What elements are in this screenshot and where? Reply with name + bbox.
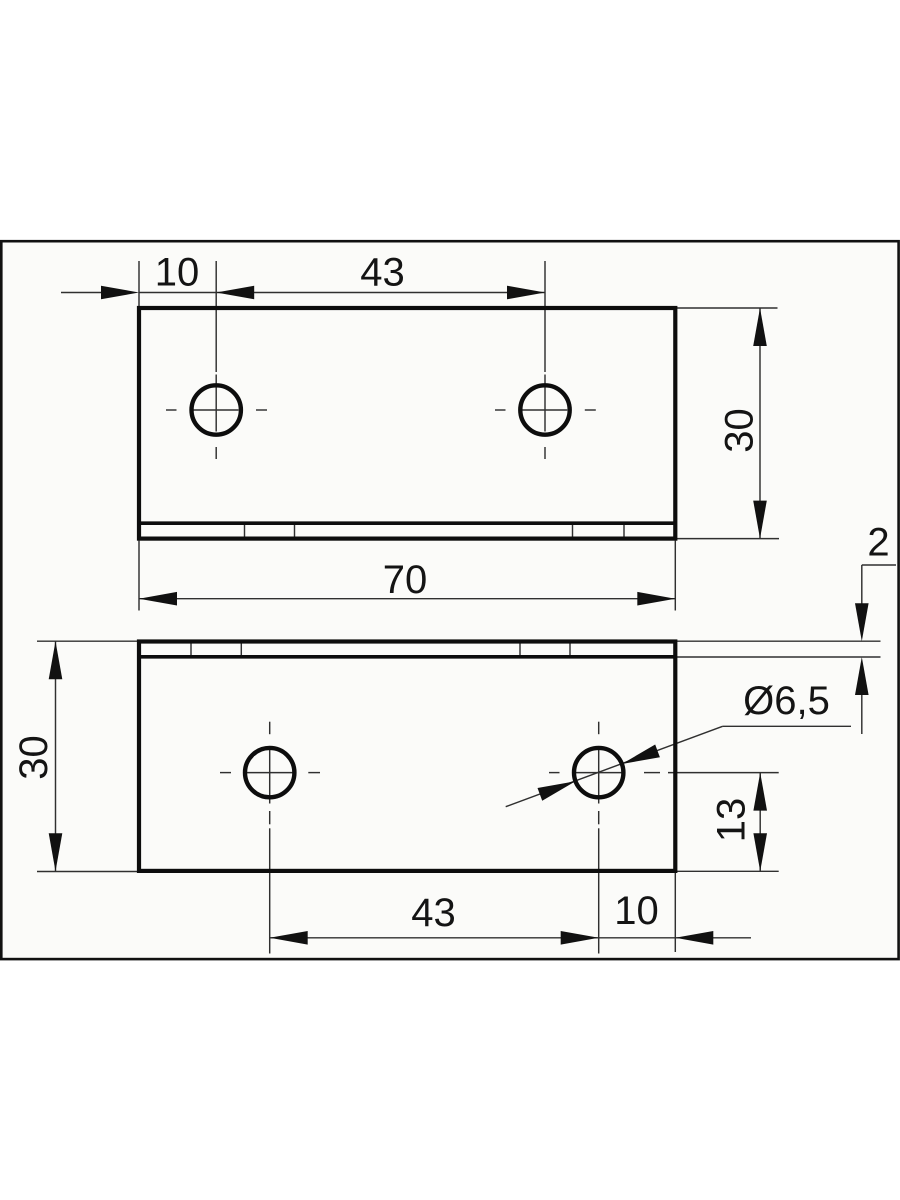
arrow dim43-bottom right [561, 931, 599, 945]
dim 13: dimension line [759, 773, 761, 872]
dim 43/10 bottom: dimension line [270, 937, 676, 939]
svg-text:70: 70 [383, 558, 428, 602]
dim 30 right: extension lines [677, 307, 778, 309]
centerline horizontal hole B1 [220, 772, 231, 774]
svg-text:2: 2 [867, 521, 889, 565]
arrow leader Ø6,5 lower [538, 775, 578, 801]
arrow dim10-bottom outside right [675, 931, 713, 945]
arrow dim30-right bottom [753, 501, 767, 539]
hole B2 [574, 748, 623, 797]
centerline horizontal hole T2 [495, 409, 506, 411]
centerline vertical hole T1 [215, 261, 217, 372]
drawing sheet frame [1, 241, 898, 959]
dim 70: dimension line [139, 598, 675, 600]
centerline horizontal hole B2 [549, 772, 560, 774]
plate outline, bottom view [139, 642, 675, 871]
hidden-line ticks in edge strip [190, 643, 192, 656]
leader line for Ø6,5 [506, 726, 723, 806]
plate outline, top view [139, 308, 675, 539]
arrow dim70 left [139, 592, 177, 606]
extension line, plate left edge (x=139) [138, 261, 140, 306]
arrow dim13 bottom [753, 833, 767, 871]
hole T1 [192, 385, 241, 434]
svg-text:30: 30 [718, 408, 762, 453]
dim 13: bottom extension line [677, 870, 779, 872]
centerline vertical hole B1 [269, 722, 271, 735]
arrow dim43 left [216, 286, 254, 300]
svg-text:43: 43 [411, 891, 456, 935]
hidden-line ticks in edge strip [244, 524, 246, 538]
svg-text:13: 13 [710, 798, 754, 843]
svg-text:43: 43 [360, 251, 405, 295]
arrow dim43 right [507, 286, 545, 300]
arrow dim43-bottom left [270, 931, 308, 945]
hole B1 [245, 748, 294, 797]
arrow dim2 upper (outside, points down) [855, 603, 869, 641]
arrow dim2 lower (outside, points up) [855, 657, 869, 695]
arrow dim30-left top [49, 641, 63, 679]
dim 30 left: extension lines [37, 640, 139, 642]
dim 30 right: dimension line [759, 308, 761, 539]
arrow dim70 right [637, 592, 675, 606]
dim 70: extension lines [138, 541, 140, 611]
svg-text:Ø6,5: Ø6,5 [743, 679, 830, 723]
svg-text:10: 10 [155, 251, 200, 295]
svg-text:30: 30 [12, 735, 56, 780]
arrow dim30-left bottom [49, 833, 63, 871]
arrow leader Ø6,5 upper [620, 744, 660, 770]
centerline horizontal hole T1 [166, 409, 177, 411]
hole T2 [520, 385, 569, 434]
dimension line 10/43 [61, 292, 102, 294]
dim 30 left: dimension line [55, 641, 57, 871]
dim 2: leader/dimension line [862, 564, 896, 566]
centerline vertical hole T2 [544, 261, 546, 372]
svg-text:10: 10 [614, 889, 659, 933]
arrow dim30-right top [753, 308, 767, 346]
dim 2: extension lines [677, 640, 881, 642]
dim 43/10 bottom: extension line plate right edge [674, 873, 676, 952]
arrow dim10 outside left [101, 286, 139, 300]
centerline vertical hole B2 [598, 722, 600, 735]
arrow dim13 top [753, 773, 767, 811]
extension line hole B2 center to 13-dim [668, 772, 779, 774]
